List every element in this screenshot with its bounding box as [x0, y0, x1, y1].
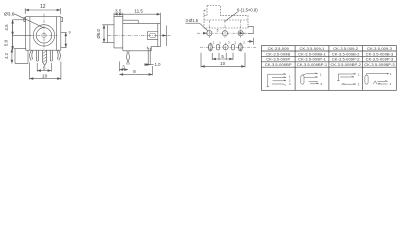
front view: left dim line 4.5 / 5.0 [12, 20, 14, 50]
svg-text:3-Ø1.5: 3-Ø1.5 [186, 18, 199, 23]
bottom view: dim 5 [211, 53, 213, 60]
side view: centerline [108, 35, 171, 37]
svg-text:CK-3.5-009P-2: CK-3.5-009P-2 [332, 57, 360, 62]
front view: side lug [14, 49, 28, 64]
front view: vertical centerline [43, 14, 45, 50]
table: schematic cell 1 [267, 73, 292, 87]
svg-text:1: 1 [358, 73, 360, 77]
side view: top dim line [114, 13, 123, 15]
svg-text:CK-3.5-009BP-2: CK-3.5-009BP-2 [330, 62, 361, 67]
svg-text:Ø3.6: Ø3.6 [4, 11, 15, 17]
front view: pin 1 curved [30, 50, 34, 60]
table: grid [261, 46, 396, 91]
svg-text:CK-3.5-009B: CK-3.5-009B [266, 51, 290, 56]
svg-text:CK-3.5-009BP-3: CK-3.5-009BP-3 [364, 62, 395, 67]
svg-text:CK-3.5-009-2: CK-3.5-009-2 [333, 46, 359, 51]
svg-text:CK-3.5-009B-3: CK-3.5-009B-3 [366, 51, 394, 56]
side view: dim 1.0 [145, 64, 148, 66]
svg-text:3: 3 [390, 82, 392, 86]
svg-text:CK-3.5-009: CK-3.5-009 [268, 46, 290, 51]
front view: body outline [26, 17, 61, 51]
front view: dim 5 [36, 63, 38, 72]
bottom view: hole pads row [207, 31, 212, 36]
svg-text:CK-3.5-009B-2: CK-3.5-009B-2 [332, 51, 360, 56]
svg-text:CK-3.5-009P-1: CK-3.5-009P-1 [298, 57, 326, 62]
table: schematic cell 4 [365, 72, 392, 86]
side view: barrel outline [123, 23, 161, 50]
svg-text:3: 3 [321, 82, 323, 86]
svg-text:4.5: 4.5 [4, 24, 9, 31]
svg-text:11.5: 11.5 [134, 9, 143, 14]
svg-text:CK-3.5-009-1: CK-3.5-009-1 [300, 46, 326, 51]
bottom view: dashed bump outline [207, 6, 221, 16]
svg-text:2: 2 [213, 40, 215, 44]
side view: tip pin detail [149, 33, 156, 37]
svg-text:1: 1 [320, 73, 322, 77]
svg-text:CK-3.5-009P-3: CK-3.5-009P-3 [366, 57, 394, 62]
bottom view: leader from 3-phi1.5 [200, 23, 209, 31]
svg-text:CK-3.5-009BP-1: CK-3.5-009BP-1 [297, 62, 328, 67]
bottom view: right small dim bracket lower [252, 38, 254, 45]
svg-text:5: 5 [43, 66, 46, 72]
table: schematic cell 3 [337, 73, 360, 87]
svg-text:CK-3.5-009-3: CK-3.5-009-3 [367, 46, 393, 51]
svg-text:CK-3.5-009P: CK-3.5-009P [266, 57, 290, 62]
svg-text:4.2: 4.2 [4, 52, 9, 58]
svg-text:CK-3.5-009B-1: CK-3.5-009B-1 [298, 51, 326, 56]
front view: pin 5 curved [57, 50, 61, 60]
bottom view: leader from 6-(1.5x0.8) [225, 12, 238, 22]
svg-text:3: 3 [122, 64, 125, 69]
side view: nose [107, 25, 114, 43]
side view: wavy leg [126, 51, 129, 65]
front view: dim 12 line [25, 9, 60, 11]
svg-text:3: 3 [228, 40, 230, 44]
bottom view: dim 10 [200, 53, 202, 68]
front view: dim 10 [29, 63, 31, 80]
front view: right dim 9 [61, 31, 67, 33]
svg-text:1.0: 1.0 [155, 62, 161, 67]
svg-text:1: 1 [390, 72, 392, 76]
front view: dim 4.2 line [11, 49, 13, 64]
table: schematic cell 2 [301, 73, 323, 86]
side view: dim 8 [151, 66, 153, 75]
front view: left tab [24, 18, 26, 22]
svg-text:2: 2 [243, 40, 245, 44]
side view: flange [114, 16, 123, 50]
svg-text:10: 10 [42, 73, 48, 79]
front view: center hole circle [42, 33, 46, 37]
side view: tip contact box [148, 23, 158, 46]
front view: pin 4 [50, 50, 52, 61]
bottom view: hole spacing dim 5 on centerline [205, 32, 207, 34]
svg-text:5.0: 5.0 [4, 39, 9, 46]
svg-text:5: 5 [221, 54, 224, 59]
front view: horizontal centerline [31, 34, 58, 36]
bottom view: slot row centerline [200, 46, 256, 48]
svg-text:10: 10 [220, 61, 225, 66]
side view: right tip dim arrow [166, 26, 168, 47]
svg-text:9: 9 [68, 31, 70, 35]
side view: left dim 5.0 [102, 24, 107, 26]
svg-text:5: 5 [217, 29, 219, 33]
front view: right tab [61, 18, 63, 22]
table: part number texts [265, 46, 396, 67]
front view: pin 2 [36, 50, 38, 61]
side view: dim 3 [118, 62, 120, 72]
svg-text:6-(1.5×0.8): 6-(1.5×0.8) [237, 7, 258, 12]
svg-text:Ø5.0: Ø5.0 [96, 28, 101, 38]
side view: straight leg [147, 47, 151, 65]
svg-text:8: 8 [133, 69, 136, 74]
front view: barrel inner circle [36, 28, 51, 43]
front view: barrel outer circle [33, 25, 54, 46]
svg-text:3: 3 [289, 82, 291, 86]
side view: top bump [123, 20, 138, 23]
front view: leader line phi3.6 [14, 14, 43, 28]
svg-text:1: 1 [234, 40, 236, 44]
bottom view: dashed body outline [204, 10, 248, 28]
svg-text:3.5: 3.5 [115, 9, 122, 14]
bottom view: slot pads row [208, 44, 242, 51]
front view: pin 3 center hatched [43, 50, 47, 65]
bottom view: right small dim bracket [248, 27, 254, 34]
svg-text:CK-3.5-009BP: CK-3.5-009BP [265, 62, 292, 67]
svg-text:12: 12 [40, 4, 46, 10]
svg-text:3: 3 [358, 82, 360, 86]
svg-text:1: 1 [219, 40, 221, 44]
